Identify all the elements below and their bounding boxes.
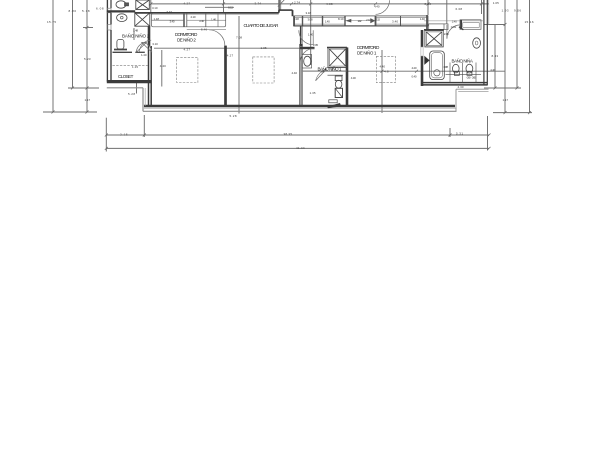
svg-text:1.40: 1.40 (321, 70, 325, 74)
svg-text:5.31: 5.31 (456, 132, 463, 136)
svg-text:1.15: 1.15 (132, 65, 138, 69)
svg-text:DE NIÑO 1: DE NIÑO 1 (357, 49, 377, 55)
svg-text:2.10: 2.10 (366, 18, 371, 22)
svg-text:4.40: 4.40 (374, 5, 380, 9)
svg-text:7.08: 7.08 (236, 35, 242, 39)
svg-text:3.10: 3.10 (152, 6, 158, 10)
svg-text:CLOSET: CLOSET (118, 74, 134, 79)
svg-text:15.75: 15.75 (47, 20, 56, 24)
svg-text:4.40: 4.40 (160, 64, 166, 68)
svg-text:0.60: 0.60 (472, 75, 476, 79)
svg-text:8.43: 8.43 (492, 54, 499, 58)
svg-text:4.30: 4.30 (351, 76, 356, 80)
svg-text:3.18: 3.18 (306, 11, 312, 15)
svg-text:1.40: 1.40 (420, 17, 425, 21)
svg-text:0.60: 0.60 (467, 75, 471, 79)
svg-text:BAÑO NIÑA: BAÑO NIÑA (452, 57, 474, 63)
svg-text:4.40: 4.40 (380, 65, 386, 69)
svg-text:BAÑO NIÑO 2: BAÑO NIÑO 2 (122, 32, 150, 38)
svg-text:4.40: 4.40 (490, 68, 495, 72)
svg-text:4.27: 4.27 (184, 1, 191, 5)
svg-text:3.40: 3.40 (170, 19, 175, 23)
svg-text:1.46: 1.46 (211, 18, 216, 22)
svg-text:4.27: 4.27 (227, 53, 234, 57)
svg-text:2.05: 2.05 (313, 43, 318, 47)
svg-text:4.08: 4.08 (326, 2, 333, 6)
svg-text:1.40: 1.40 (308, 32, 314, 36)
svg-text:1.05: 1.05 (493, 1, 499, 5)
svg-text:2.15: 2.15 (120, 132, 128, 136)
svg-text:5.28: 5.28 (230, 114, 237, 118)
svg-text:2.10: 2.10 (191, 15, 196, 19)
svg-text:1.42: 1.42 (358, 19, 362, 23)
svg-text:3.74: 3.74 (255, 1, 262, 5)
svg-text:3.18: 3.18 (294, 17, 299, 21)
svg-text:5.18: 5.18 (82, 9, 90, 13)
svg-text:1.05: 1.05 (261, 46, 267, 50)
svg-text:DE NIÑO 2: DE NIÑO 2 (177, 37, 196, 43)
svg-text:DORMITORIO: DORMITORIO (175, 32, 198, 37)
svg-text:2.74: 2.74 (294, 1, 300, 5)
svg-text:0.88: 0.88 (444, 65, 449, 69)
svg-text:5.28: 5.28 (128, 92, 135, 96)
svg-text:1.40: 1.40 (141, 53, 147, 57)
svg-text:4.40: 4.40 (292, 71, 298, 75)
svg-text:3.40: 3.40 (392, 19, 398, 23)
svg-text:8.15: 8.15 (228, 5, 233, 9)
svg-text:6.08: 6.08 (96, 7, 104, 11)
svg-text:1.17: 1.17 (503, 98, 509, 102)
svg-text:3.10: 3.10 (152, 42, 158, 46)
svg-text:1.40: 1.40 (325, 20, 330, 24)
svg-text:4.30: 4.30 (458, 85, 464, 89)
svg-text:4.8: 4.8 (384, 70, 389, 74)
svg-text:8.10: 8.10 (338, 17, 344, 21)
svg-text:4.20: 4.20 (412, 66, 417, 70)
svg-text:0.40: 0.40 (412, 75, 417, 79)
svg-text:5.23: 5.23 (84, 57, 91, 61)
svg-text:0.82: 0.82 (451, 25, 457, 29)
svg-text:3.08: 3.08 (308, 17, 313, 21)
svg-text:41.44: 41.44 (296, 146, 305, 150)
svg-text:15.16: 15.16 (525, 20, 534, 24)
svg-text:5.46: 5.46 (201, 28, 207, 32)
svg-text:2.40: 2.40 (452, 19, 457, 23)
svg-text:2.15: 2.15 (376, 18, 381, 22)
svg-text:2.05: 2.05 (444, 32, 449, 36)
svg-text:1.17: 1.17 (85, 98, 91, 102)
svg-text:3.43: 3.43 (167, 10, 173, 14)
svg-text:1.93: 1.93 (502, 9, 509, 13)
svg-text:8.80: 8.80 (69, 9, 77, 13)
svg-text:1.48: 1.48 (154, 17, 160, 21)
svg-text:1.35: 1.35 (310, 91, 316, 95)
svg-text:8.60: 8.60 (425, 2, 432, 6)
svg-text:CUARTO DE JUGAR: CUARTO DE JUGAR (244, 23, 280, 28)
svg-text:1.48: 1.48 (133, 29, 138, 33)
svg-text:9.06: 9.06 (514, 9, 521, 13)
svg-text:4.27: 4.27 (184, 47, 191, 51)
svg-text:6.08: 6.08 (456, 7, 463, 11)
svg-text:38.35: 38.35 (284, 132, 293, 136)
svg-text:3.40: 3.40 (199, 19, 204, 23)
